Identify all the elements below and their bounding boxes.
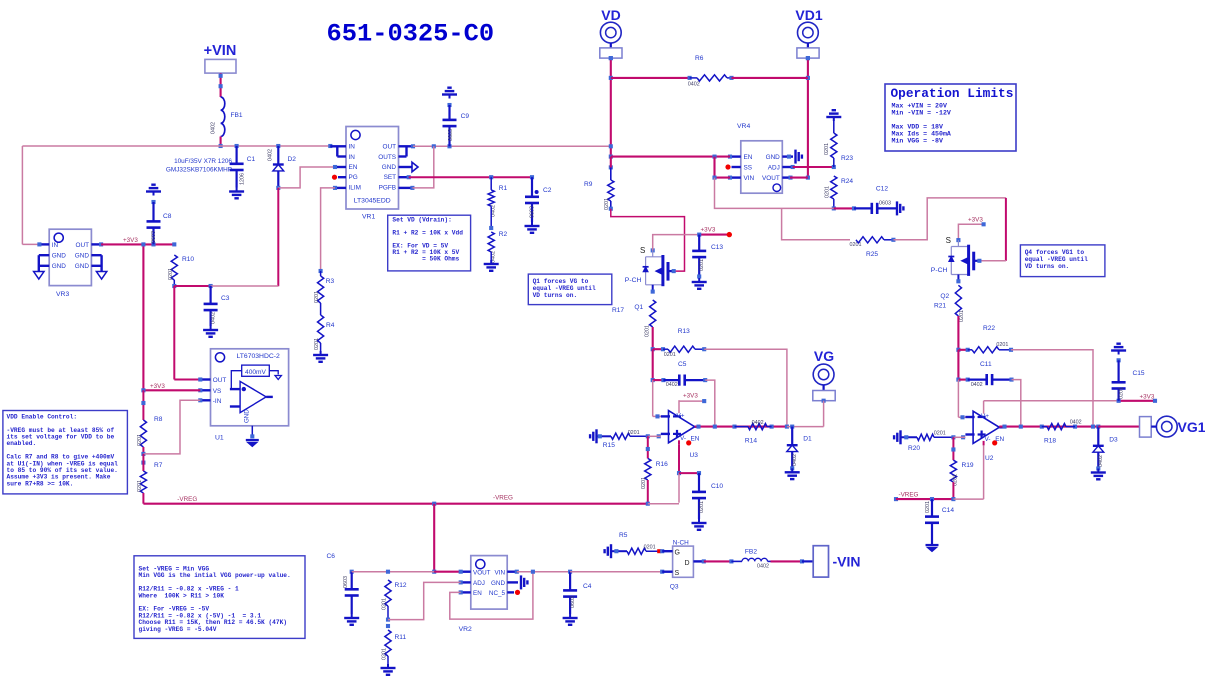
svg-text:C15: C15 — [1133, 370, 1145, 377]
wire -IN to divider — [143, 400, 200, 454]
svg-text:R17: R17 — [612, 307, 624, 314]
svg-text:Max VDD = 18V: Max VDD = 18V — [892, 124, 943, 131]
diode D1 — [787, 427, 812, 471]
VR3 pin IN — [37, 242, 49, 246]
svg-text:VR4: VR4 — [737, 123, 750, 130]
svg-text:Min VGG = -8V: Min VGG = -8V — [892, 138, 943, 145]
net label +3V3 U2 — [984, 394, 1157, 403]
capacitor C3 — [204, 286, 230, 326]
svg-text:GND: GND — [52, 253, 67, 260]
svg-text:-VREG: -VREG — [899, 492, 919, 499]
svg-text:0603: 0603 — [879, 201, 891, 207]
svg-text:0201: 0201 — [137, 480, 143, 492]
VR3 left GND bracket + ground — [34, 255, 50, 279]
VR2 pin NC_5 — [507, 590, 520, 595]
svg-text:Set VD (Vdrain):: Set VD (Vdrain): — [392, 217, 451, 224]
svg-text:OUT: OUT — [383, 144, 397, 151]
VR1 pin PGFB — [399, 186, 415, 190]
capacitor C9 — [442, 88, 469, 147]
U1 GND pin — [243, 409, 254, 439]
ground C6 — [344, 614, 359, 625]
VR2 pin GND + ground — [507, 575, 527, 589]
wire V- to VREG riser — [677, 445, 681, 503]
svg-text:C8: C8 — [163, 213, 172, 220]
svg-text:PGFB: PGFB — [379, 184, 396, 191]
wire -VREG rail — [143, 502, 649, 506]
svg-text:R14: R14 — [745, 438, 757, 445]
svg-text:PG: PG — [349, 174, 358, 181]
svg-text:0603: 0603 — [530, 206, 536, 218]
port VD — [600, 7, 622, 60]
resistor R8 — [137, 390, 163, 456]
resistor R18 — [1042, 420, 1082, 445]
resistor R9 — [584, 165, 614, 210]
ground R15 sideways — [590, 429, 596, 443]
ground C10 — [692, 519, 707, 530]
wire EN to VIN node — [450, 572, 533, 619]
capacitor C4 — [563, 570, 592, 614]
ground C3 — [203, 326, 218, 337]
wire R22 feedback — [1011, 350, 1093, 427]
svg-text:Max +VIN = 20V: Max +VIN = 20V — [892, 103, 947, 110]
resistor R4 — [314, 303, 335, 351]
capacitor C11 — [968, 361, 1014, 388]
svg-text:R9: R9 — [584, 181, 593, 188]
svg-text:IN: IN — [349, 154, 356, 161]
U1 comparator triangle — [230, 381, 273, 412]
ground D1 — [785, 468, 800, 479]
wire +VIN to FB1 — [219, 73, 223, 97]
wire C6 to VOUT node — [352, 570, 435, 574]
resistor R14 — [735, 420, 772, 445]
svg-text:0201: 0201 — [825, 186, 831, 198]
svg-text:D1: D1 — [803, 436, 812, 443]
svg-text:R1: R1 — [499, 185, 508, 192]
svg-text:OUT: OUT — [213, 377, 227, 384]
VR1 pin OUT bracket — [399, 144, 416, 156]
svg-text:0201: 0201 — [314, 291, 320, 303]
svg-text:VIN: VIN — [495, 569, 506, 576]
svg-text:ADJ: ADJ — [768, 165, 780, 172]
ground C2 — [525, 222, 540, 233]
svg-text:+3V3: +3V3 — [968, 217, 983, 224]
wire R15 to plus input — [648, 435, 661, 437]
net label +3V3 Q2 — [968, 217, 983, 224]
regulator VR2 — [459, 556, 508, 633]
wire C4 to Q3 S — [570, 570, 664, 574]
svg-text:R8: R8 — [154, 416, 163, 423]
text C1 part info — [166, 158, 233, 174]
svg-text:VOUT: VOUT — [762, 175, 780, 182]
wire -VREG right segment — [894, 497, 955, 501]
U1 pin OUT — [198, 377, 210, 381]
VR2 pin VIN — [507, 570, 519, 574]
svg-text:P-CH: P-CH — [931, 267, 948, 274]
svg-text:+3V3: +3V3 — [123, 237, 138, 244]
resistor R2 — [488, 231, 507, 263]
svg-text:Operation Limits: Operation Limits — [891, 86, 1014, 101]
capacitor C6 — [327, 553, 359, 614]
svg-text:U3: U3 — [690, 452, 699, 459]
VR4 pin SS — [725, 164, 740, 169]
U1 pin VS — [198, 388, 210, 392]
svg-text:R6: R6 — [695, 55, 704, 62]
svg-text:FB1: FB1 — [231, 112, 243, 119]
wire R13 feedback — [704, 349, 787, 426]
svg-text:GND: GND — [75, 253, 90, 260]
wire VS to +3V3 — [141, 388, 200, 392]
transistor Q1 P-CH — [625, 246, 676, 311]
wire Q1 source to +3V3 — [653, 235, 700, 251]
svg-text:0201: 0201 — [996, 342, 1008, 348]
svg-text:C9: C9 — [461, 113, 470, 120]
capacitor C8 — [146, 185, 172, 245]
svg-text:giving -VREG = -5.04V: giving -VREG = -5.04V — [139, 626, 217, 633]
wire left rail down to VR3 — [22, 146, 39, 244]
wire Q3 D to FB2 — [704, 559, 742, 563]
svg-text:0201: 0201 — [382, 648, 388, 660]
VR3 pin OUT — [91, 242, 103, 246]
ground D3 — [1091, 469, 1106, 480]
svg-text:VS: VS — [213, 388, 222, 395]
svg-text:C4: C4 — [583, 583, 592, 590]
wire -VREG drop to VR2 — [432, 504, 436, 574]
wire C5 to output — [705, 380, 715, 427]
svg-text:EN: EN — [744, 154, 753, 161]
svg-text:S: S — [640, 246, 645, 255]
svg-text:C2: C2 — [543, 187, 552, 194]
port VG1 — [1140, 416, 1205, 437]
svg-text:P-CH: P-CH — [625, 277, 642, 284]
svg-text:0201: 0201 — [644, 545, 656, 551]
resistor R20 — [901, 431, 966, 452]
svg-text:0402: 0402 — [757, 563, 769, 569]
svg-text:G: G — [675, 550, 680, 557]
svg-text:EN: EN — [473, 590, 482, 597]
wire D2 down to enable node — [277, 188, 279, 286]
ground C4 — [563, 614, 578, 625]
Q3 source lead — [662, 571, 672, 573]
Q3 drain lead — [693, 559, 705, 563]
svg-text:C6: C6 — [327, 553, 336, 560]
svg-text:IN: IN — [52, 242, 59, 249]
wire enable node to D2 — [211, 285, 279, 287]
svg-text:EN: EN — [349, 164, 358, 171]
svg-text:GND: GND — [243, 409, 250, 423]
port -VIN — [813, 546, 860, 577]
wire VR4 VOUT to VD1 — [790, 177, 808, 179]
wire VD down — [609, 56, 613, 159]
svg-text:R5: R5 — [619, 532, 628, 539]
resistor R1 — [488, 177, 507, 230]
svg-text:LT3045EDD: LT3045EDD — [354, 198, 391, 205]
svg-text:VDD Enable Control:: VDD Enable Control: — [7, 413, 78, 420]
svg-text:SS: SS — [744, 165, 753, 172]
ground C12 sideways — [897, 201, 903, 215]
op-amp U2 — [965, 401, 1004, 462]
VR2 pin ADJ — [459, 580, 471, 584]
svg-text:0201: 0201 — [641, 477, 647, 489]
svg-text:0201: 0201 — [699, 501, 705, 513]
svg-text:0402: 0402 — [211, 122, 217, 134]
ground R11 — [381, 664, 396, 675]
wire R9 to Q1 gate — [611, 157, 685, 272]
svg-text:R11: R11 — [395, 634, 407, 641]
svg-text:R21: R21 — [934, 303, 946, 310]
ground C13 — [692, 278, 707, 289]
svg-text:0402: 0402 — [211, 312, 217, 324]
svg-text:Max Ids = 450mA: Max Ids = 450mA — [892, 131, 951, 138]
svg-text:FB2: FB2 — [745, 549, 757, 556]
svg-text:C14: C14 — [942, 507, 954, 514]
svg-text:GND: GND — [491, 580, 505, 587]
svg-text:0402: 0402 — [666, 382, 678, 388]
svg-text:U2: U2 — [985, 455, 994, 462]
resistor R7 — [137, 454, 163, 504]
svg-text:NC_5: NC_5 — [489, 590, 506, 597]
note box Set VD — [388, 215, 471, 271]
ground R20 sideways — [894, 430, 900, 444]
svg-text:GMJ32SKB7106KMHP: GMJ32SKB7106KMHP — [166, 167, 232, 174]
svg-text:0603: 0603 — [448, 129, 454, 141]
capacitor C2 polarized — [525, 177, 552, 222]
svg-text:0603: 0603 — [343, 576, 349, 588]
svg-text:VD turns on.: VD turns on. — [533, 292, 578, 299]
svg-text:R4: R4 — [326, 322, 335, 329]
U1 pin -IN — [198, 398, 210, 402]
svg-text:0402: 0402 — [688, 82, 700, 88]
svg-text:R16: R16 — [656, 461, 668, 468]
resistor R13 — [663, 328, 706, 358]
wire VD to VR4 EN — [611, 155, 730, 159]
wire PGFB riser — [412, 146, 433, 188]
wire C11 to output — [1012, 380, 1021, 427]
diode D3 — [1093, 427, 1118, 471]
capacitor C1 — [230, 144, 256, 188]
wire R10 bottom node — [174, 284, 212, 288]
svg-text:GND: GND — [75, 263, 90, 270]
svg-text:Q3: Q3 — [670, 584, 679, 591]
VR1 pin ILIM — [333, 186, 346, 190]
wire -VREG to U3 V- — [648, 503, 679, 505]
svg-text:D3: D3 — [1109, 437, 1118, 444]
capacitor C12 — [834, 186, 897, 215]
svg-text:-VREG: -VREG — [493, 495, 513, 502]
svg-text:C12: C12 — [876, 186, 888, 193]
svg-text:OUTS: OUTS — [378, 154, 396, 161]
wire R22 node — [956, 348, 969, 352]
svg-text:0201: 0201 — [699, 259, 705, 271]
svg-text:0201: 0201 — [959, 310, 965, 322]
svg-text:-VIN: -VIN — [833, 554, 861, 570]
resistor R24 — [825, 176, 854, 210]
ground R5 sideways — [605, 544, 611, 558]
ground above R23 — [826, 110, 841, 121]
net label -VREG mid — [493, 495, 513, 502]
VR2 pin VOUT — [459, 570, 471, 574]
svg-text:0603: 0603 — [151, 231, 157, 243]
svg-text:0201: 0201 — [628, 430, 640, 436]
wire minus input U3 — [653, 380, 661, 418]
regulator VR3 — [49, 229, 91, 298]
svg-text:R19: R19 — [962, 462, 974, 469]
svg-text:+3V3: +3V3 — [701, 227, 716, 234]
svg-text:Q1 forces VG to: Q1 forces VG to — [533, 278, 589, 285]
wire R10 node down to U1 OUT — [174, 286, 200, 380]
svg-text:U1: U1 — [215, 435, 224, 442]
wire down to C11 — [956, 350, 969, 382]
svg-text:GND: GND — [382, 164, 397, 171]
wire R13 node — [651, 347, 665, 351]
net label -VREG left — [177, 496, 197, 503]
resistor R17 — [612, 300, 656, 349]
svg-text:VG: VG — [814, 348, 834, 364]
wire +3V3 column — [142, 244, 144, 390]
svg-text:0201: 0201 — [314, 338, 320, 350]
note box VDD Enable Control — [3, 411, 128, 494]
svg-text:VR1: VR1 — [362, 214, 375, 221]
svg-text:0402: 0402 — [971, 382, 983, 388]
svg-text:= 50K Ohms: = 50K Ohms — [392, 256, 459, 263]
capacitor C14 — [925, 499, 954, 544]
resistor R16 — [641, 436, 668, 503]
svg-text:Q4 forces VG1 to: Q4 forces VG1 to — [1025, 249, 1085, 256]
svg-text:R20: R20 — [908, 445, 920, 452]
VR4 pin GND + ground — [782, 150, 802, 164]
resistor R22 — [968, 325, 1013, 353]
wire VIN node right — [517, 570, 570, 574]
resistor R21 — [934, 285, 965, 350]
svg-text:R2: R2 — [499, 231, 508, 238]
svg-text:Where 100K > R11 > 10K: Where 100K > R11 > 10K — [139, 592, 225, 599]
wire R25 to Q2 gate — [893, 198, 1006, 261]
svg-text:-VREG: -VREG — [177, 496, 197, 503]
wire VD1 down — [806, 56, 810, 180]
svg-text:VIN: VIN — [744, 175, 755, 182]
wire Q2 source to +3V3 — [958, 222, 985, 240]
net label +3V3 VR3 — [123, 237, 138, 244]
VR4 pin VIN — [728, 176, 741, 180]
capacitor C13 — [692, 235, 723, 279]
svg-text:10uF/35V X7R 1206: 10uF/35V X7R 1206 — [174, 158, 232, 165]
wire VOUT crimson — [434, 571, 461, 573]
VR1 pin GND power arrow — [399, 162, 419, 172]
svg-text:0402: 0402 — [268, 149, 274, 161]
capacitor C15 — [1111, 344, 1145, 401]
svg-text:VD turns on.: VD turns on. — [1025, 263, 1070, 270]
regulator VR1 LT3045EDD — [346, 127, 399, 221]
wire ILIM to R3 — [319, 188, 335, 273]
svg-text:0201: 0201 — [137, 434, 143, 446]
ground C1 — [229, 188, 244, 199]
svg-text:0201: 0201 — [168, 268, 174, 280]
svg-text:VR2: VR2 — [459, 626, 472, 633]
resistor R19 — [950, 437, 974, 499]
svg-text:R22: R22 — [983, 325, 995, 332]
svg-text:V-: V- — [985, 436, 991, 443]
VR2 pin EN — [459, 590, 471, 594]
svg-text:R7: R7 — [154, 462, 163, 469]
svg-text:V+: V+ — [981, 413, 989, 420]
wire VIN node sense — [715, 178, 834, 209]
resistor R10 — [168, 255, 194, 288]
svg-text:0201: 0201 — [1119, 387, 1125, 399]
svg-text:0402: 0402 — [1070, 420, 1082, 426]
wire U3 output — [695, 425, 789, 429]
wire VR3 OUT to R10 — [101, 242, 176, 246]
svg-text:0402: 0402 — [792, 454, 798, 466]
svg-text:Q2: Q2 — [940, 293, 949, 300]
svg-text:R15: R15 — [603, 442, 615, 449]
svg-text:400mV: 400mV — [245, 369, 266, 376]
svg-text:equal -VREG until: equal -VREG until — [1025, 256, 1088, 263]
svg-text:R13: R13 — [678, 328, 690, 335]
title 651-0325-C0 — [327, 19, 495, 48]
regulator VR4 — [737, 123, 782, 193]
ground U1 — [246, 440, 259, 447]
svg-text:0201: 0201 — [645, 325, 651, 337]
port VD1 — [795, 7, 822, 60]
svg-text:R12: R12 — [395, 582, 407, 589]
svg-text:-IN: -IN — [213, 398, 222, 405]
op-amp U3 — [661, 400, 700, 459]
svg-text:R25: R25 — [866, 251, 878, 258]
wire VR1 SET to R1 C2 — [409, 175, 534, 179]
svg-text:0603: 0603 — [570, 596, 576, 608]
svg-text:N-CH: N-CH — [673, 539, 689, 546]
resistor R23 — [824, 121, 853, 167]
wire -VREG to U2 V- — [953, 445, 983, 499]
svg-text:Min VGG is the intial VGG powe: Min VGG is the intial VGG power-up value… — [139, 572, 291, 579]
wire output to VG1 — [1098, 426, 1139, 428]
ferrite bead FB2 — [742, 549, 769, 570]
VR4 pin EN — [728, 155, 741, 159]
VR1 pin IN bracket — [328, 144, 346, 157]
VR1 pin PG — [332, 175, 346, 180]
ground R4 — [313, 351, 328, 362]
note box Set -VREG — [134, 556, 305, 639]
svg-text:ADJ: ADJ — [473, 580, 485, 587]
capacitor C5 — [663, 361, 707, 388]
wire VR4 ADJ to R23 R24 — [793, 165, 836, 169]
resistor R11 — [382, 624, 407, 664]
svg-text:C1: C1 — [247, 156, 256, 163]
net label -VREG right — [899, 492, 919, 499]
resistor R25 — [850, 237, 896, 258]
wire ADJ to R12 R11 junction — [388, 582, 461, 619]
svg-text:V+: V+ — [677, 413, 685, 420]
note box Operation Limits — [885, 84, 1016, 151]
svg-text:Min -VIN = -12V: Min -VIN = -12V — [892, 110, 951, 117]
svg-text:SET: SET — [384, 174, 397, 181]
wire FB2 to -VIN — [768, 559, 814, 563]
ferrite bead FB1 — [211, 97, 243, 137]
note box Q4 forces — [1020, 245, 1105, 277]
net label +3V3 U3 — [679, 393, 706, 404]
svg-text:VG1: VG1 — [1178, 419, 1205, 435]
U1 400mV reference — [231, 365, 281, 389]
svg-text:C13: C13 — [711, 244, 723, 251]
svg-text:+VIN: +VIN — [204, 43, 237, 59]
wire VR1 OUT line — [413, 144, 611, 148]
svg-text:R10: R10 — [182, 256, 194, 263]
svg-text:651-0325-C0: 651-0325-C0 — [327, 19, 495, 48]
svg-text:C3: C3 — [221, 295, 230, 302]
wire FB1 to input rail — [219, 137, 223, 149]
svg-text:0402: 0402 — [1098, 455, 1104, 467]
svg-text:+3V3: +3V3 — [683, 393, 698, 400]
resistor R12 — [382, 580, 407, 622]
